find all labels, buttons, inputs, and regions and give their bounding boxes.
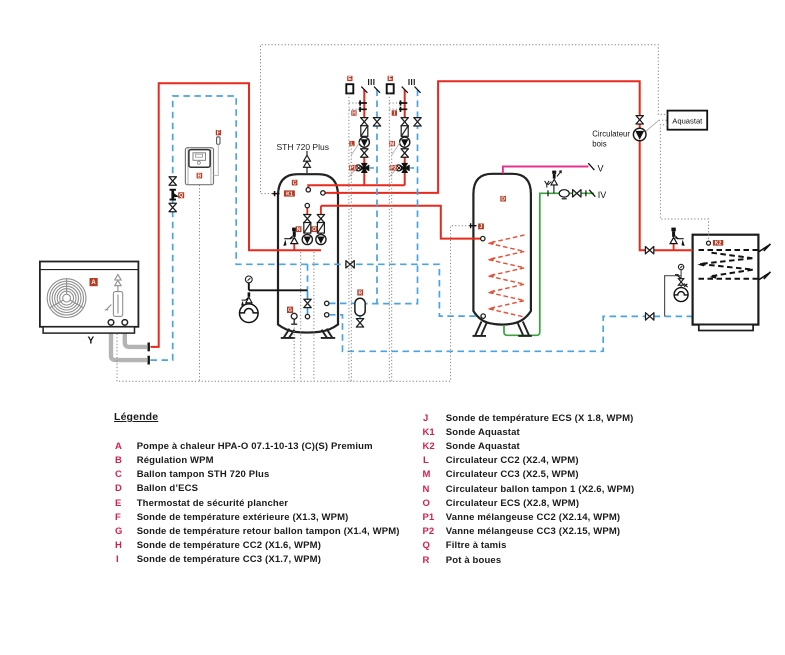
- svg-text:III: III: [368, 78, 376, 87]
- wire CC3 group to bus 2: [391, 142, 393, 381]
- svg-text:F: F: [217, 130, 220, 136]
- wire CC2 group to bus 1: [348, 93, 350, 381]
- pump N: [302, 234, 312, 244]
- boiler zigzag arrowheads: [698, 262, 717, 278]
- label G: [287, 307, 293, 314]
- valve pot a boues drain: [356, 319, 363, 327]
- sensor F outdoor: [217, 137, 220, 145]
- pump L CC2: [359, 137, 369, 147]
- legend left column letters: [115, 441, 122, 452]
- valve shutoff below strainer: [169, 203, 176, 211]
- node boiler flue tick lower: [758, 272, 770, 280]
- valve CC2 flow shutoff: [361, 118, 368, 126]
- svg-text:M: M: [390, 141, 394, 147]
- valve CC3 return shutoff: [414, 118, 421, 126]
- wire tank C bottom branch solid: [307, 291, 309, 315]
- check valve CC2: [361, 126, 368, 137]
- wire pot a boues drain stub: [359, 316, 361, 319]
- mixing valve P2: [396, 163, 410, 172]
- wire pot a boues to tank C port: [329, 302, 354, 304]
- node union tick green 1: [547, 190, 549, 196]
- node tank C right port upper: [325, 301, 329, 305]
- node ECS coil inlet port: [481, 236, 485, 240]
- svg-text:E: E: [348, 76, 352, 82]
- tank D ECS body: [473, 174, 531, 325]
- tank C left leg: [281, 329, 295, 339]
- node ECS coil outlet port: [481, 314, 485, 318]
- node heat pump port flow: [122, 320, 128, 326]
- svg-text:V: V: [598, 164, 604, 174]
- wire ECS charging flow pipe: [321, 206, 481, 239]
- node arrow tick V: [588, 163, 594, 170]
- node CC3 flow arrow tick: [402, 87, 408, 93]
- node CC2 return arrow tick: [374, 87, 380, 93]
- svg-text:O: O: [312, 227, 316, 233]
- pressure reducer ECS: [559, 190, 569, 199]
- wire heat pump supply pipe thick: [125, 323, 147, 347]
- wire CC2 blue return: [376, 90, 378, 304]
- pump M CC3: [400, 137, 410, 147]
- valve CC3 flow shutoff: [401, 118, 408, 126]
- svg-text:K2: K2: [715, 241, 722, 247]
- svg-text:P1: P1: [350, 166, 356, 172]
- wire tank C bottom branch dashed: [307, 264, 309, 289]
- svg-text:B: B: [198, 173, 202, 179]
- node tank C bottom port: [305, 314, 309, 318]
- label E CC3: [388, 76, 393, 82]
- check valve N: [304, 223, 311, 234]
- wire CC2 mixing valve branch: [370, 167, 377, 169]
- wire CC3 pump diagonal: [389, 142, 400, 177]
- svg-text:Aquastat: Aquastat: [672, 116, 703, 125]
- valve circulateur bois shutoff: [636, 116, 643, 124]
- boiler heat exchanger top row: [699, 249, 758, 251]
- legend right column letters: [423, 413, 428, 424]
- sensor E contact CC3: [399, 100, 407, 105]
- svg-text:J: J: [480, 224, 483, 230]
- thermal relief vessel boiler: [674, 288, 688, 302]
- wire CC3 red riser: [404, 90, 406, 186]
- svg-text:A: A: [91, 280, 96, 286]
- wire ECS cold water top run: [540, 193, 594, 196]
- safety valve group ECS: [545, 171, 562, 194]
- valve boiler return shutoff: [646, 313, 654, 320]
- gauge on expansion line: [245, 276, 252, 283]
- sensor E contact CC2: [359, 100, 367, 105]
- label D: [500, 196, 506, 203]
- tank C buffer body: [278, 174, 338, 332]
- tank C right leg: [321, 329, 335, 339]
- aquastat box: [668, 111, 708, 130]
- node pipe fitting flow: [147, 343, 149, 352]
- svg-text:G: G: [288, 308, 292, 314]
- tank C air vent: [304, 151, 311, 173]
- node boiler port K2: [707, 241, 711, 245]
- coil ECS heat exchanger: [489, 235, 525, 317]
- label P2: [390, 165, 397, 172]
- label O: [311, 226, 317, 233]
- svg-text:P2: P2: [390, 166, 396, 172]
- heat pump A outer box: [40, 262, 138, 334]
- svg-text:N: N: [297, 227, 301, 233]
- wire boiler thermal group piping: [665, 270, 682, 317]
- node boiler flue tick upper: [758, 244, 770, 252]
- wire sensor F to regulator: [214, 144, 219, 175]
- node arrow tick IV: [589, 190, 595, 197]
- label J: [478, 224, 484, 231]
- label A: [90, 278, 98, 286]
- valve O shutoff: [317, 215, 324, 223]
- wire pump O to bus: [313, 252, 315, 381]
- wire regulator B to bus: [199, 185, 201, 381]
- node tank C right port lower: [325, 313, 329, 317]
- wire pump N riser: [306, 208, 308, 215]
- wire boiler safety stub: [673, 243, 675, 250]
- sensor K1 pocket: [272, 191, 279, 196]
- legend left column texts: [137, 441, 373, 452]
- wire heat pump return pipe thick: [111, 323, 147, 360]
- label F: [216, 130, 221, 136]
- valve ECS cold water: [573, 190, 581, 197]
- wire pump O riser top corner: [320, 206, 322, 245]
- svg-text:C: C: [293, 180, 297, 186]
- label Q: [178, 192, 184, 199]
- label R: [357, 290, 363, 297]
- pump circulateur bois: [633, 128, 646, 141]
- boiler body: [693, 235, 759, 325]
- safety valve boiler: [670, 228, 685, 246]
- wire CC2 sensors dotted stub: [349, 103, 358, 109]
- svg-text:IV: IV: [598, 190, 607, 200]
- thermal valve boiler group: [675, 275, 688, 287]
- tank D right leg: [518, 322, 532, 336]
- label L: [349, 141, 354, 147]
- sensor G tank C bottom: [291, 313, 297, 324]
- expansion vessel: [240, 304, 259, 323]
- coil arrowheads: [488, 241, 495, 311]
- wire wood boiler return (blue dashed): [329, 315, 692, 352]
- wire expansion vessel black line: [249, 283, 308, 291]
- node CC3 return arrow tick: [415, 87, 421, 93]
- mixing valve P1: [355, 163, 369, 172]
- heat pump fan: [47, 279, 86, 318]
- wire sensor G to bus: [293, 324, 295, 381]
- thermometer boiler group: [678, 264, 683, 269]
- sensor J pocket: [469, 223, 476, 228]
- strainer Q: [170, 189, 180, 201]
- wire CC3 sensors dotted stub: [389, 103, 398, 109]
- pump O: [316, 234, 326, 244]
- label K2: [713, 240, 723, 247]
- safety valve manifold: [283, 228, 298, 246]
- wire CC3 group to bus 1: [388, 93, 390, 381]
- node union tick green 2: [585, 190, 587, 196]
- wire wood boiler flow pipe: [325, 81, 692, 250]
- valve return manifold shutoff: [346, 261, 354, 268]
- valve boiler flow shutoff: [645, 247, 653, 254]
- boiler heat exchanger bottom row: [699, 278, 758, 280]
- label C: [292, 180, 298, 187]
- check valve CC3: [401, 126, 408, 137]
- valve tank C bottom branch: [304, 299, 311, 307]
- svg-text:STH 720 Plus: STH 720 Plus: [277, 142, 329, 152]
- label M: [389, 141, 395, 147]
- svg-text:K1: K1: [286, 191, 293, 197]
- label K1: [284, 190, 295, 197]
- pump N assembly valves: [304, 215, 311, 223]
- node CC2 flow arrow tick: [361, 87, 367, 93]
- thermostat E box CC2: [346, 84, 353, 93]
- node heat pump port return: [108, 320, 114, 326]
- label E CC2: [347, 76, 352, 82]
- wire CC3 mixing valve branch: [410, 167, 417, 169]
- wire K2 sensor dotted: [660, 125, 708, 241]
- valve CC2 return shutoff: [373, 118, 380, 126]
- pot a boues R: [355, 298, 365, 316]
- label H: [351, 110, 356, 116]
- safety valve on expansion line: [241, 292, 252, 305]
- node pipe fitting return: [147, 356, 149, 365]
- svg-text:E: E: [389, 76, 393, 82]
- wire K1 sensor dotted: [261, 45, 668, 194]
- wire heat-pump return (blue dashed): [151, 96, 482, 360]
- svg-text:bois: bois: [592, 139, 606, 148]
- heat pump compressor unit: [105, 275, 123, 317]
- wire safety stub on manifold: [293, 243, 295, 250]
- valve CC3 lower shutoff: [401, 149, 408, 157]
- wire CC3 blue return: [366, 90, 418, 304]
- svg-text:R: R: [358, 290, 362, 296]
- wire ECS hot water pipe (magenta): [503, 167, 589, 174]
- svg-text:H: H: [352, 111, 356, 117]
- thermostat E box CC3: [387, 84, 394, 93]
- wire CC flow manifold: [308, 185, 404, 188]
- svg-text:Circulateur: Circulateur: [592, 129, 630, 138]
- wire pump N to bus: [300, 252, 302, 381]
- label I: [392, 110, 397, 116]
- check valve O: [317, 223, 324, 234]
- legend title: [114, 411, 158, 423]
- node tank C port 3: [305, 203, 309, 207]
- wire ECS cold water pipe (green): [504, 196, 540, 336]
- svg-text:Y: Y: [88, 336, 95, 347]
- wire CC2 group to bus 2: [350, 142, 352, 381]
- tank D left leg: [473, 322, 487, 336]
- label P1: [349, 165, 356, 172]
- boiler pedestal: [699, 325, 753, 331]
- legend right column texts: [446, 413, 634, 424]
- label N: [296, 226, 302, 233]
- regulator B box: [185, 148, 213, 185]
- svg-text:III: III: [408, 78, 416, 87]
- label B: [197, 173, 203, 180]
- wire electrical bus dotted: [117, 226, 469, 382]
- label squares: [90, 76, 724, 314]
- valve CC2 lower shutoff: [361, 149, 368, 157]
- wire CC2 red riser: [363, 90, 365, 186]
- sensor I CC3: [399, 107, 407, 112]
- wire CC2 pump diagonal: [349, 142, 360, 177]
- node tank C port 2: [321, 191, 325, 195]
- boiler heat exchanger zigzag: [700, 253, 753, 277]
- wire heat-pump flow pipe (red loop): [151, 83, 322, 347]
- valve shutoff above strainer: [169, 177, 176, 185]
- svg-text:Q: Q: [179, 193, 183, 199]
- wire aquastat to pump dotted: [646, 120, 659, 131]
- node tank C port 1: [306, 188, 310, 192]
- sensor H CC2: [359, 107, 367, 112]
- svg-text:D: D: [501, 197, 505, 203]
